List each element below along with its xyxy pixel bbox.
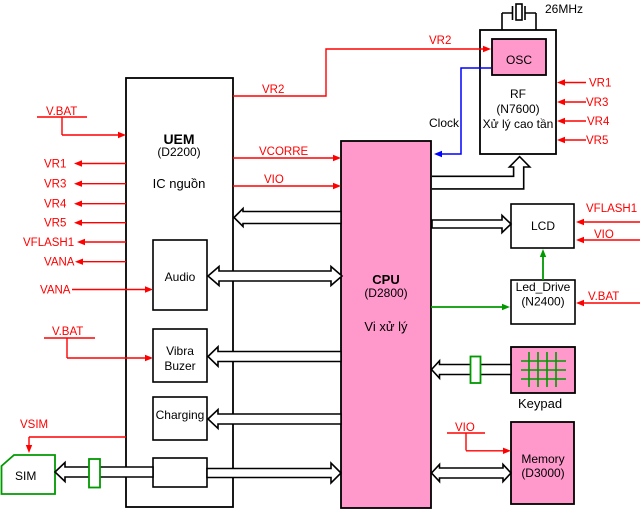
svg-text:VR1: VR1 [44, 159, 66, 171]
SIM interface block [153, 458, 207, 487]
svg-text:VFLASH1: VFLASH1 [23, 237, 74, 249]
svg-text:Charging: Charging [156, 408, 205, 422]
bus CPU to RF [432, 157, 530, 189]
wire Led_Drive to LCD [540, 249, 546, 280]
bus CPU to Charging [208, 410, 341, 429]
svg-text:Memory: Memory [521, 452, 564, 466]
svg-text:(D2800): (D2800) [364, 286, 407, 300]
svg-text:Clock: Clock [429, 116, 460, 130]
bus UEM to SIM card [55, 463, 153, 482]
svg-text:VFLASH1: VFLASH1 [586, 203, 637, 215]
svg-text:VR5: VR5 [586, 135, 608, 147]
wire VR5 to RF [557, 135, 608, 147]
Audio block [153, 240, 207, 310]
svg-text:CPU: CPU [372, 272, 399, 287]
bus SIM interface to CPU [207, 463, 341, 483]
CPU block D2800 [341, 141, 431, 508]
Led_Drive block N2400 [511, 280, 575, 324]
svg-text:VIO: VIO [455, 422, 475, 434]
svg-text:VR4: VR4 [587, 116, 610, 128]
svg-text:VCORRE: VCORRE [259, 146, 309, 158]
Memory block D3000 [511, 422, 574, 504]
svg-text:VIO: VIO [594, 229, 614, 241]
wire VFLASH1 out [23, 237, 126, 249]
svg-text:VSIM: VSIM [20, 419, 48, 431]
wire VIO UEM to CPU [233, 174, 341, 189]
wire VR1 to RF [557, 78, 611, 90]
svg-text:VR2: VR2 [262, 84, 284, 96]
wire V.BAT to Vibra [44, 326, 153, 361]
EMI filter Z2 (Keypad) [471, 357, 481, 384]
EMI filter Z1 (SIM) [89, 459, 100, 488]
svg-text:VR1: VR1 [589, 78, 611, 90]
svg-text:LCD: LCD [531, 219, 555, 233]
svg-text:(N7600): (N7600) [496, 102, 539, 116]
wire VCORRE UEM to CPU [233, 146, 341, 161]
svg-text:VANA: VANA [40, 285, 71, 297]
wire VIO to Memory [447, 422, 511, 454]
svg-text:Xử lý cao tần: Xử lý cao tần [483, 117, 554, 131]
svg-text:IC nguồn: IC nguồn [153, 176, 206, 191]
OSC block [492, 39, 546, 75]
wire VR4 out [44, 199, 126, 211]
crystal B1 26MHz [502, 4, 536, 30]
label 26MHz [545, 2, 583, 16]
svg-text:(D2200): (D2200) [157, 145, 200, 159]
svg-text:Vi xử lý: Vi xử lý [364, 319, 408, 334]
svg-text:(D3000): (D3000) [521, 466, 564, 480]
svg-text:SIM: SIM [15, 469, 36, 483]
wire VANA to Audio [40, 285, 153, 297]
bus CPU to Memory [432, 464, 512, 481]
RF block N7600 [480, 30, 556, 154]
svg-text:V.BAT: V.BAT [52, 326, 83, 338]
svg-text:RF: RF [510, 87, 526, 101]
svg-text:26MHz: 26MHz [545, 2, 583, 16]
LCD block [511, 204, 574, 248]
svg-text:V.BAT: V.BAT [46, 106, 77, 118]
UEM block D2200 [126, 78, 233, 507]
svg-text:VR5: VR5 [44, 218, 66, 230]
svg-text:VIO: VIO [264, 174, 284, 186]
wire VR1 out [44, 159, 126, 171]
bus UEM to CPU (control) [234, 209, 341, 227]
svg-text:VR3: VR3 [44, 179, 66, 191]
wire CPU to Led_Drive [431, 304, 510, 310]
bus CPU to Vibra [208, 347, 341, 366]
svg-text:VR2: VR2 [429, 35, 451, 47]
wire VR3 out [44, 179, 126, 191]
svg-text:OSC: OSC [506, 53, 532, 67]
Keypad block [511, 347, 575, 411]
wire V.BAT to Led_Drive [576, 291, 640, 306]
wire Clock OSC to CPU [429, 68, 491, 157]
Vibra Buzer block [153, 329, 207, 382]
svg-text:Buzer: Buzer [164, 359, 195, 373]
svg-text:V.BAT: V.BAT [588, 291, 619, 303]
wire VR5 out [44, 218, 126, 230]
bus CPU to LCD [432, 215, 511, 232]
svg-text:Audio: Audio [165, 270, 196, 284]
svg-text:VR3: VR3 [586, 97, 608, 109]
svg-text:Keypad: Keypad [518, 396, 562, 411]
wire VIO to LCD [576, 229, 640, 243]
Charging block [153, 397, 207, 440]
wire VSIM to SIM [20, 419, 126, 453]
wire VR2 UEM to OSC [233, 35, 491, 96]
wire VR4 to RF [557, 116, 610, 128]
SIM card [2, 455, 56, 494]
bus Audio to CPU [208, 267, 342, 286]
wire VR3 to RF [557, 97, 608, 109]
wire VFLASH1 to LCD [576, 203, 640, 225]
svg-text:VANA: VANA [44, 257, 75, 269]
svg-text:Led_Drive: Led_Drive [516, 280, 571, 294]
wire VANA out [44, 257, 126, 269]
svg-text:(N2400): (N2400) [521, 295, 564, 309]
svg-text:Vibra: Vibra [166, 344, 194, 358]
bus Keypad to CPU [432, 361, 512, 378]
svg-text:VR4: VR4 [44, 199, 67, 211]
wire V.BAT to UEM [37, 106, 126, 138]
